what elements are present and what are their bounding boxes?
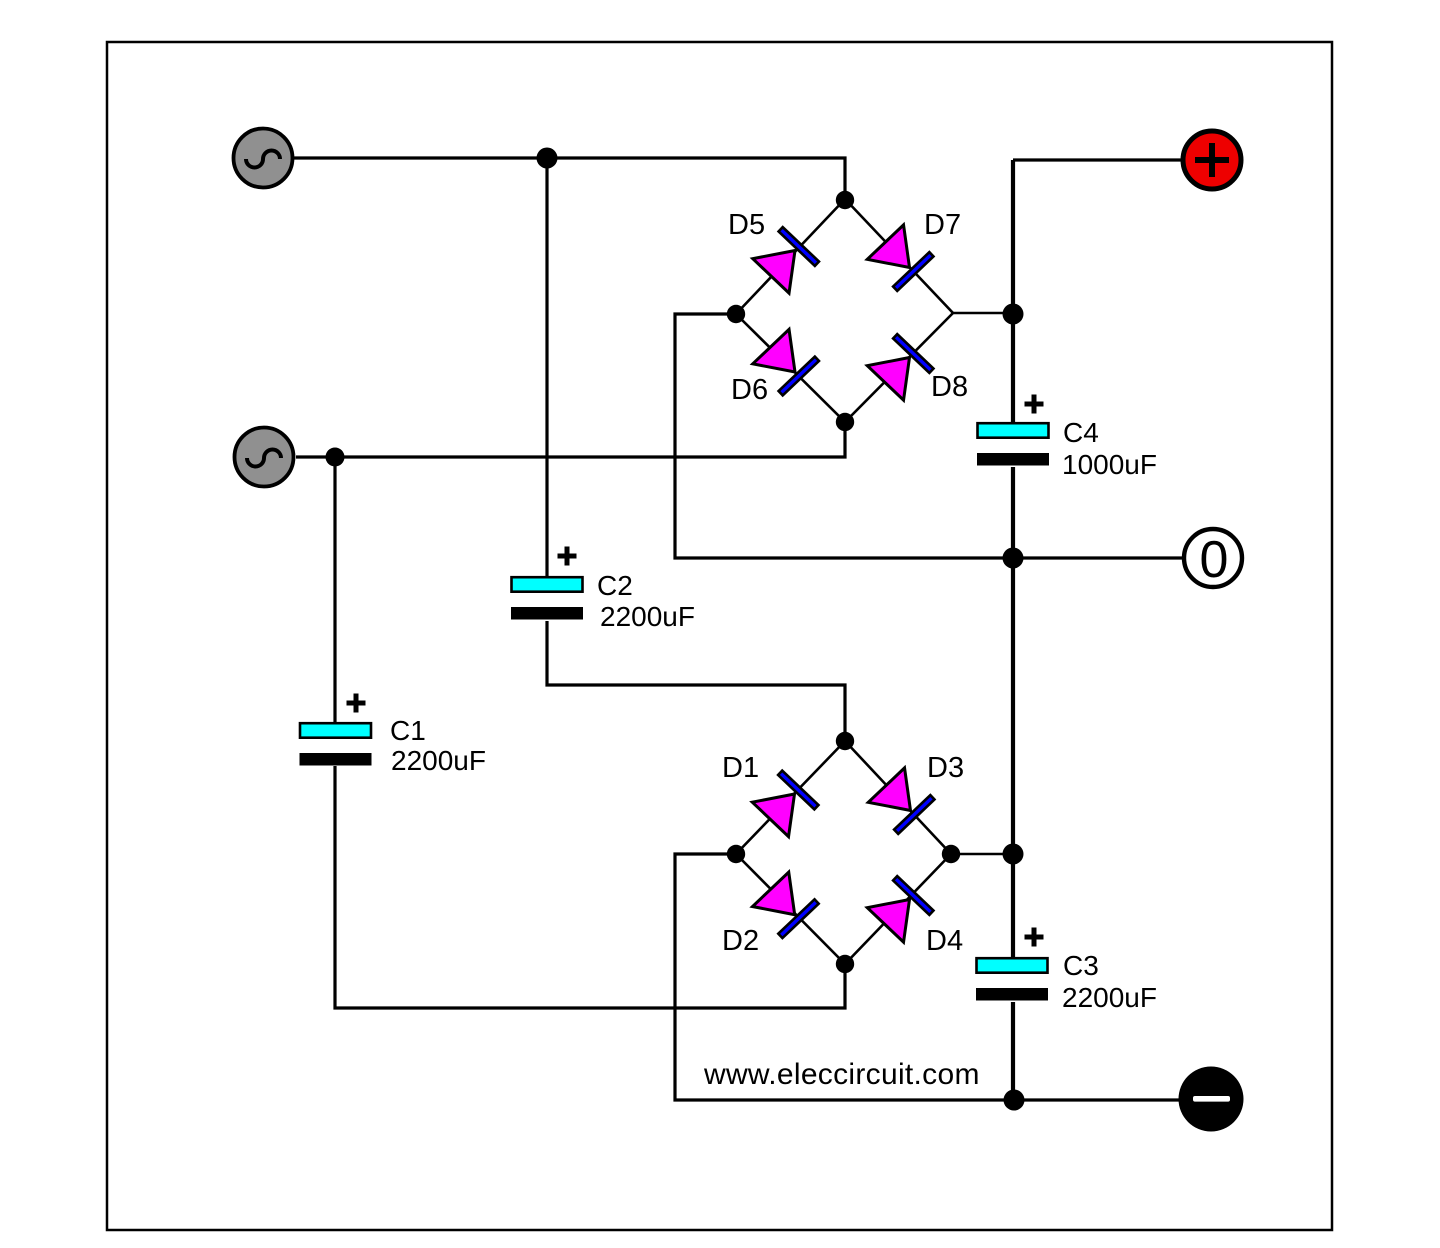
- svg-text:2200uF: 2200uF: [1062, 982, 1157, 1013]
- svg-text:D4: D4: [926, 925, 963, 957]
- svg-text:2200uF: 2200uF: [391, 745, 486, 776]
- svg-text:1000uF: 1000uF: [1062, 449, 1157, 480]
- svg-text:D6: D6: [731, 374, 768, 406]
- svg-text:D5: D5: [728, 209, 765, 241]
- svg-text:D8: D8: [931, 371, 968, 403]
- svg-text:C2: C2: [597, 570, 633, 601]
- svg-text:D2: D2: [722, 925, 759, 957]
- svg-text:C4: C4: [1063, 417, 1099, 448]
- svg-text:C1: C1: [390, 715, 426, 746]
- svg-text:D1: D1: [722, 752, 759, 784]
- svg-text:2200uF: 2200uF: [600, 601, 695, 632]
- svg-text:D7: D7: [924, 209, 961, 241]
- svg-text:D3: D3: [927, 752, 964, 784]
- svg-text:C3: C3: [1063, 950, 1099, 981]
- svg-text:0: 0: [1200, 531, 1229, 589]
- svg-text:www.eleccircuit.com: www.eleccircuit.com: [703, 1058, 980, 1091]
